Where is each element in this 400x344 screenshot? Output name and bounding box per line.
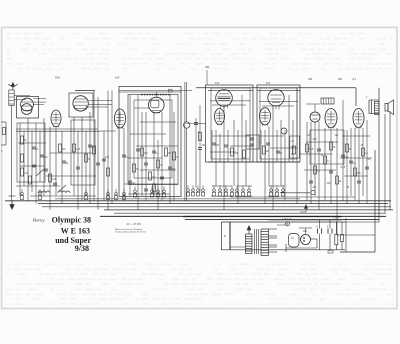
svg-text:1M: 1M xyxy=(307,134,310,137)
svg-text:DrF: DrF xyxy=(115,76,120,80)
svg-text:dW: dW xyxy=(205,65,210,69)
svg-text:9/38: 9/38 xyxy=(75,244,89,253)
svg-text:Olympic 38: Olympic 38 xyxy=(52,216,91,225)
svg-text:+255V: +255V xyxy=(333,218,340,220)
svg-text:100: 100 xyxy=(105,156,110,159)
svg-text:0,25: 0,25 xyxy=(341,166,346,169)
svg-text:DrF: DrF xyxy=(266,81,271,85)
svg-text:dW: dW xyxy=(308,77,313,81)
svg-text:100: 100 xyxy=(345,156,350,159)
svg-text:0,25: 0,25 xyxy=(24,172,29,175)
svg-text:Schaltung Horny Olympic 38, W: Schaltung Horny Olympic 38, W 163 xyxy=(115,230,145,233)
svg-text:300: 300 xyxy=(313,138,318,141)
svg-text:0,25: 0,25 xyxy=(234,152,239,155)
svg-text:DrF: DrF xyxy=(215,81,220,85)
svg-text:Horny: Horny xyxy=(32,218,46,223)
svg-text:300: 300 xyxy=(327,182,332,185)
svg-text:4,3: 4,3 xyxy=(352,77,356,81)
svg-text:dW: dW xyxy=(338,77,343,81)
svg-text:2M: 2M xyxy=(172,168,175,171)
svg-text:W E 163: W E 163 xyxy=(61,226,90,235)
svg-text:2M: 2M xyxy=(202,144,205,147)
svg-text:2M: 2M xyxy=(216,144,219,147)
svg-text:100: 100 xyxy=(367,158,372,161)
svg-text:4V: 4V xyxy=(291,237,294,240)
svg-text:300: 300 xyxy=(357,172,362,175)
svg-text:1M: 1M xyxy=(132,182,135,185)
svg-text:1M: 1M xyxy=(168,152,171,155)
svg-text:100: 100 xyxy=(144,152,149,155)
svg-text:1M: 1M xyxy=(266,150,269,153)
svg-text:DrE: DrE xyxy=(55,76,60,80)
svg-text:0,25: 0,25 xyxy=(309,148,314,151)
svg-text:0,25: 0,25 xyxy=(76,148,81,151)
svg-text:100: 100 xyxy=(152,176,157,179)
svg-text:100: 100 xyxy=(44,156,49,159)
svg-text:2V — 87 kHz: 2V — 87 kHz xyxy=(127,223,142,226)
svg-text:100: 100 xyxy=(62,148,67,151)
svg-text:0,25: 0,25 xyxy=(52,178,57,181)
